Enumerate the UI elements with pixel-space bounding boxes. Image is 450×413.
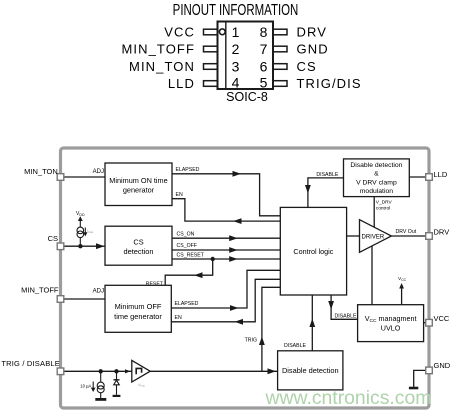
svg-text:MIN_TOFF: MIN_TOFF (21, 285, 59, 294)
ground bar current source (95, 398, 106, 401)
wire TRIG to control logic (245, 287, 281, 371)
svg-text:7: 7 (260, 41, 268, 57)
svg-text:DISABLE: DISABLE (284, 343, 306, 349)
wire clamp block to LLD pin (409, 176, 425, 178)
Ibias down arrow (83, 228, 94, 237)
package left strip (225, 22, 227, 89)
svg-text:SOIC-8: SOIC-8 (226, 90, 268, 104)
svg-text:3: 3 (232, 59, 240, 75)
svg-text:CS_RESET: CS_RESET (177, 252, 205, 258)
svg-text:ELAPSED: ELAPSED (176, 167, 200, 173)
wire DISABLE clamp to control logic (305, 172, 344, 207)
VCC pin (426, 319, 433, 326)
Minimum OFF time generator block (105, 285, 171, 332)
wire MIN_TOFF ADJ (64, 298, 105, 300)
svg-text:Minimum ON time: Minimum ON time (109, 176, 167, 185)
svg-text:Minimum OFF: Minimum OFF (115, 302, 162, 311)
svg-text:DRIVER: DRIVER (362, 234, 385, 240)
TRIG/DISABLE pin (57, 368, 64, 375)
svg-text:www.cntronics.com: www.cntronics.com (265, 387, 432, 409)
wire DISABLE from UVLO (328, 295, 357, 319)
pin 6 lead (273, 64, 287, 70)
svg-text:Control logic: Control logic (293, 247, 333, 256)
svg-text:CS_OFF: CS_OFF (177, 243, 197, 249)
junction CS_RESET node (211, 257, 215, 261)
pin 2 lead (204, 46, 218, 52)
wire driver to UVLO (371, 246, 373, 305)
svg-text:8: 8 (260, 24, 268, 40)
Control logic block (280, 207, 346, 295)
svg-text:10 µA: 10 µA (80, 383, 91, 388)
svg-text:CS: CS (133, 238, 143, 247)
pin 4 lead (204, 81, 218, 87)
pin 1 lead (204, 29, 218, 35)
pin 8 lead (273, 29, 287, 35)
pin 5 lead (273, 81, 287, 87)
VCC management UVLO block (358, 305, 424, 342)
schmitt trigger U3 (132, 360, 150, 387)
svg-text:DISABLE: DISABLE (316, 172, 338, 178)
svg-text:LLD: LLD (168, 76, 195, 91)
svg-text:VCC: VCC (434, 314, 450, 323)
wire DRV out (391, 229, 425, 236)
GND pin (426, 367, 433, 374)
svg-text:UVLO: UVLO (381, 324, 401, 333)
svg-text:time generator: time generator (114, 312, 162, 321)
svg-text:VCC: VCC (164, 25, 195, 40)
wire DISABLE detection to control logic (284, 295, 315, 351)
driver U2 (360, 220, 392, 253)
svg-text:detection: detection (124, 247, 154, 256)
svg-text:DRV: DRV (434, 227, 450, 236)
svg-text:CS: CS (297, 59, 317, 74)
svg-text:TRIG/DIS: TRIG/DIS (297, 76, 362, 91)
svg-text:V_DRV: V_DRV (376, 200, 393, 206)
svg-text:TRIG: TRIG (245, 338, 257, 344)
wire CS pin to CS detection (64, 243, 105, 249)
svg-text:EN: EN (176, 192, 183, 198)
wire TRIG/DISABLE pin to schmitt (64, 369, 132, 373)
LLD pin (426, 174, 433, 181)
pin 7 lead (273, 46, 287, 52)
svg-text:CS: CS (48, 234, 58, 243)
wire CS_ON (172, 232, 280, 241)
svg-text:GND: GND (434, 361, 450, 370)
svg-text:6: 6 (260, 59, 268, 75)
svg-text:Disable detection: Disable detection (282, 366, 339, 375)
Vcc arrow (398, 276, 407, 305)
svg-text:LLD: LLD (434, 170, 448, 179)
wire control logic to driver (347, 235, 360, 237)
svg-text:modulation: modulation (360, 188, 393, 195)
diode D1 (114, 371, 120, 395)
svg-text:Disable detection: Disable detection (350, 162, 402, 169)
svg-text:Vtrig: Vtrig (138, 383, 145, 388)
svg-text:GND: GND (297, 42, 329, 57)
svg-text:MIN_TON: MIN_TON (129, 59, 195, 74)
svg-text:DISABLE: DISABLE (335, 313, 357, 319)
wire schmitt to disable detection (150, 368, 277, 374)
IC package U1 SOIC-8 body (218, 22, 274, 90)
IC boundary frame (61, 148, 430, 408)
svg-text:TRIG / DISABLE: TRIG / DISABLE (1, 359, 60, 368)
wire MIN_TON ADJ (64, 176, 105, 178)
current source I1 (77, 227, 84, 244)
ground symbol (409, 387, 418, 390)
junction at current source (99, 369, 103, 373)
MIN_TOFF pin (57, 296, 64, 303)
pin 1 indicator circle (219, 29, 225, 35)
wire V_DRV control (374, 197, 392, 228)
svg-text:generator: generator (123, 185, 155, 194)
wire ELAPSED from Min ON gen to control logic (172, 167, 280, 216)
junction at diode (114, 369, 118, 373)
svg-text:PINOUT INFORMATION: PINOUT INFORMATION (173, 2, 299, 19)
svg-text:CS_ON: CS_ON (177, 232, 195, 238)
Disable detection and V DRV clamp modulation block (344, 159, 410, 197)
svg-text:1: 1 (232, 24, 240, 40)
wire RESET (146, 259, 213, 287)
wire CS_OFF (172, 243, 280, 253)
10uA down arrow (80, 382, 95, 393)
svg-text:MIN_TOFF: MIN_TOFF (121, 42, 195, 57)
wire CS_RESET (172, 252, 280, 262)
wire ELAPSED from Min OFF gen (171, 270, 280, 311)
svg-text:2: 2 (232, 41, 240, 57)
svg-text:&: & (374, 171, 379, 178)
svg-text:ADJ: ADJ (93, 169, 104, 175)
svg-text:5: 5 (260, 75, 268, 91)
current source I2 (10uA) (97, 371, 104, 398)
svg-text:VDD: VDD (76, 211, 85, 217)
svg-text:Ibias: Ibias (87, 229, 94, 234)
svg-text:ADJ: ADJ (93, 288, 104, 294)
MIN_TON pin (57, 174, 64, 181)
wire GND pin to ground (414, 370, 426, 387)
CS detection block (105, 226, 172, 265)
Disable detection block (278, 351, 343, 390)
svg-text:control: control (376, 205, 390, 211)
wire EN to Min OFF gen (171, 279, 280, 324)
svg-text:DRV Out: DRV Out (396, 229, 417, 235)
CS pin (57, 243, 64, 250)
DRV pin (426, 233, 433, 240)
svg-text:VCC: VCC (398, 276, 407, 282)
svg-text:ELAPSED: ELAPSED (175, 301, 199, 307)
Minimum ON time generator block (105, 163, 172, 206)
ground bar diode (113, 395, 121, 397)
wire UVLO to VCC pin (424, 322, 426, 324)
svg-text:V DRV clamp: V DRV clamp (356, 179, 397, 186)
svg-text:4: 4 (232, 75, 240, 91)
junction CS node (78, 244, 82, 248)
wire EN to Min ON gen (172, 192, 280, 224)
svg-text:MIN_TON: MIN_TON (24, 167, 58, 176)
svg-text:DRV: DRV (297, 25, 328, 40)
svg-text:EN: EN (175, 315, 182, 321)
VDD arrow (78, 216, 83, 227)
pin 3 lead (204, 64, 218, 70)
